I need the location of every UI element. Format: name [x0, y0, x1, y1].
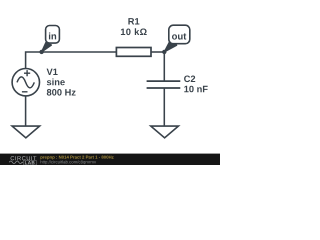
label V1	[47, 69, 58, 75]
node flag out pointer	[164, 42, 176, 52]
value 10 kOhm	[121, 28, 147, 35]
node flag out text	[172, 33, 186, 39]
capacitor C2 bottom plate	[147, 87, 181, 89]
node flag out box	[169, 25, 190, 44]
resistor R1 body	[116, 48, 151, 57]
node flag in box	[46, 26, 60, 44]
node flag in pointer	[42, 43, 52, 52]
value sine	[47, 78, 65, 85]
footer logo CIRCUIT	[11, 156, 37, 160]
value 10 nF	[184, 86, 207, 93]
footer title	[40, 156, 113, 160]
label R1	[128, 18, 139, 24]
footer logo LAB box	[23, 160, 37, 165]
ground under capacitor	[151, 126, 179, 138]
voltage source plus sign	[24, 70, 30, 76]
voltage source V1 sine symbol	[17, 77, 34, 88]
voltage source minus sign	[22, 91, 28, 93]
capacitor C2 top plate	[147, 80, 181, 82]
label C2	[184, 76, 195, 83]
wire: resistor to out junction	[152, 51, 165, 53]
node flag in text	[49, 33, 56, 40]
footer bar	[0, 154, 220, 165]
footer logo wave	[9, 161, 23, 164]
wire: source bottom to ground	[25, 96, 27, 126]
junction dot node out	[162, 50, 166, 54]
wire: source top up and right to resistor	[26, 52, 116, 69]
value 800 Hz	[47, 89, 76, 96]
footer url	[41, 160, 97, 164]
voltage source V1 circle	[12, 69, 39, 96]
junction dot node in	[39, 50, 43, 54]
wire: capacitor bottom plate to ground	[163, 88, 165, 126]
footer logo LAB	[25, 161, 35, 164]
ground under source	[12, 126, 39, 138]
wire: out junction down to capacitor top plate	[163, 52, 165, 81]
